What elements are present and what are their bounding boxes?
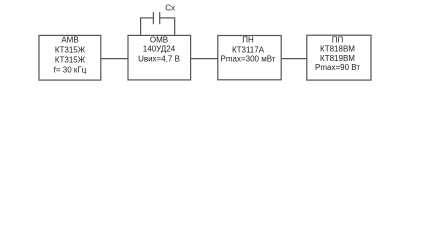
svg-text:Pmax=90 Вт: Pmax=90 Вт — [315, 63, 360, 72]
wire — [160, 17, 175, 19]
svg-text:КТ315Ж: КТ315Ж — [55, 45, 86, 54]
wire — [140, 17, 142, 35]
block U2 OMV (one-shot multivibrator) — [128, 35, 191, 80]
svg-text:f= 30 кГц: f= 30 кГц — [54, 66, 87, 75]
svg-text:Pmax=300 мВт: Pmax=300 мВт — [221, 54, 276, 63]
svg-text:140УД24: 140УД24 — [143, 45, 176, 54]
block U3 PN (voltage converter) — [218, 35, 281, 79]
svg-text:Uвих=4,7 В: Uвих=4,7 В — [138, 55, 180, 64]
wire — [281, 58, 307, 60]
svg-text:АМВ: АМВ — [61, 36, 78, 45]
wire — [141, 17, 154, 19]
svg-text:ПН: ПН — [242, 35, 254, 44]
block U4 PP (power amplifier) — [307, 35, 371, 80]
svg-text:ПП: ПП — [332, 35, 344, 44]
svg-text:ОМВ: ОМВ — [150, 35, 168, 44]
svg-text:КТ3117А: КТ3117А — [232, 45, 265, 54]
svg-text:КТ818ВМ: КТ818ВМ — [320, 45, 355, 54]
capacitor Cx — [153, 3, 175, 24]
block U1 AMV (astable multivibrator) — [39, 35, 101, 80]
svg-text:КТ819ВМ: КТ819ВМ — [320, 54, 355, 63]
wire — [191, 58, 218, 60]
wire — [101, 58, 128, 60]
svg-text:Cx: Cx — [165, 3, 175, 12]
svg-text:КТ315Ж: КТ315Ж — [55, 56, 86, 65]
wire — [174, 17, 176, 35]
